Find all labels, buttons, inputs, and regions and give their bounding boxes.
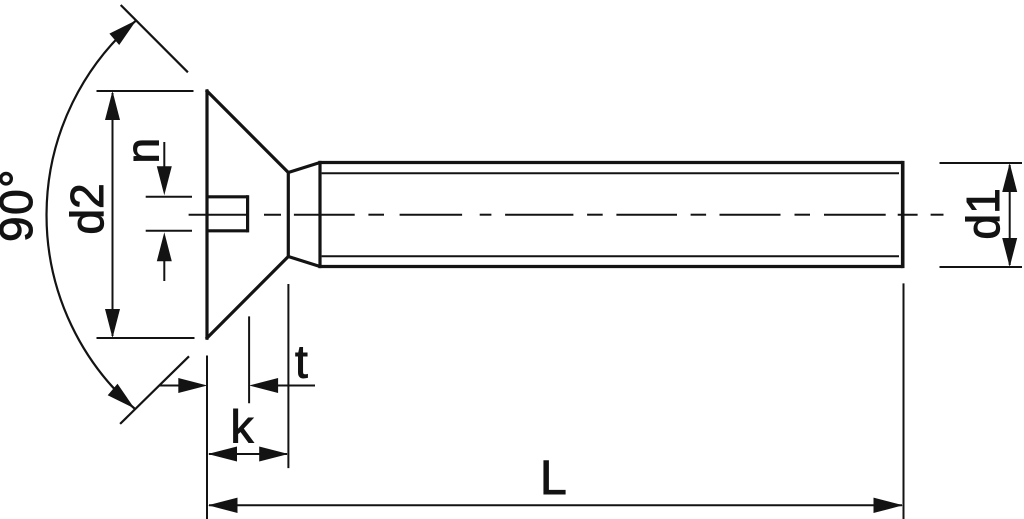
d1 extension line bottom: [940, 266, 1023, 268]
centerline (dash-dot axis): [189, 214, 944, 216]
slot inner end vertical: [246, 195, 249, 232]
cone angle extension line upper: [121, 5, 188, 72]
t dimension tail right: [277, 385, 315, 387]
d1 dimension line: [1009, 165, 1011, 265]
L arrow left: [208, 498, 238, 513]
n extension line lower: [146, 230, 192, 232]
d1 extension line top: [940, 162, 1023, 164]
d1 arrow top: [1002, 163, 1017, 192]
head small-diameter vertical edge: [287, 172, 290, 258]
n arrow lower (points up): [157, 232, 172, 261]
k dimension line: [209, 453, 287, 455]
head top cone edge: [206, 90, 288, 173]
L extension line right (from shaft end): [903, 283, 905, 519]
angle arc arrow bottom: [108, 384, 135, 409]
svg-text:d1: d1: [957, 188, 1009, 239]
slot bottom line: [207, 229, 248, 232]
svg-text:t: t: [295, 336, 308, 388]
L arrow right: [874, 498, 904, 513]
n arrow upper (points down): [157, 166, 172, 195]
t dimension tail left: [159, 385, 180, 387]
d2 arrow top: [105, 91, 120, 120]
d2 dimension line: [112, 93, 114, 336]
d2 arrow bottom: [105, 309, 120, 338]
svg-text:L: L: [540, 452, 567, 505]
angle arc arrow top: [109, 20, 136, 45]
thread root bottom line: [322, 255, 899, 257]
svg-text:n: n: [117, 138, 169, 164]
k arrow left: [208, 447, 237, 462]
head bottom cone edge: [206, 257, 288, 340]
svg-text:k: k: [231, 401, 255, 453]
t arrow right (points left at slot bottom): [249, 378, 278, 393]
L dimension line: [209, 504, 902, 506]
shaft end vertical line: [901, 161, 905, 268]
n dimension tail above: [163, 142, 165, 168]
thread crest bottom line: [318, 265, 902, 268]
n dimension tail below: [163, 260, 165, 281]
angle dimension arc: [47, 20, 137, 408]
k extension line right (from cone tip): [287, 284, 289, 468]
neck chamfer bottom: [288, 257, 320, 267]
svg-text:d2: d2: [61, 183, 113, 234]
head face (left vertical edge of countersunk head): [205, 89, 208, 339]
d2 extension line bottom: [97, 337, 195, 339]
cone angle extension line lower: [120, 356, 189, 424]
t extension line: [248, 316, 250, 403]
k arrow right: [259, 447, 288, 462]
slot top line: [207, 195, 248, 198]
thread start vertical line: [318, 161, 321, 268]
thread root top line: [322, 172, 899, 174]
d1 arrow bottom: [1002, 238, 1017, 267]
thread crest top line: [318, 161, 902, 164]
svg-text:90°: 90°: [0, 168, 42, 242]
d2 extension line top: [97, 90, 194, 92]
head height extension line (left, shared k and L): [206, 356, 208, 519]
t arrow left (points right at head face): [178, 378, 207, 393]
n extension line upper: [146, 196, 192, 198]
neck chamfer top: [288, 163, 320, 173]
